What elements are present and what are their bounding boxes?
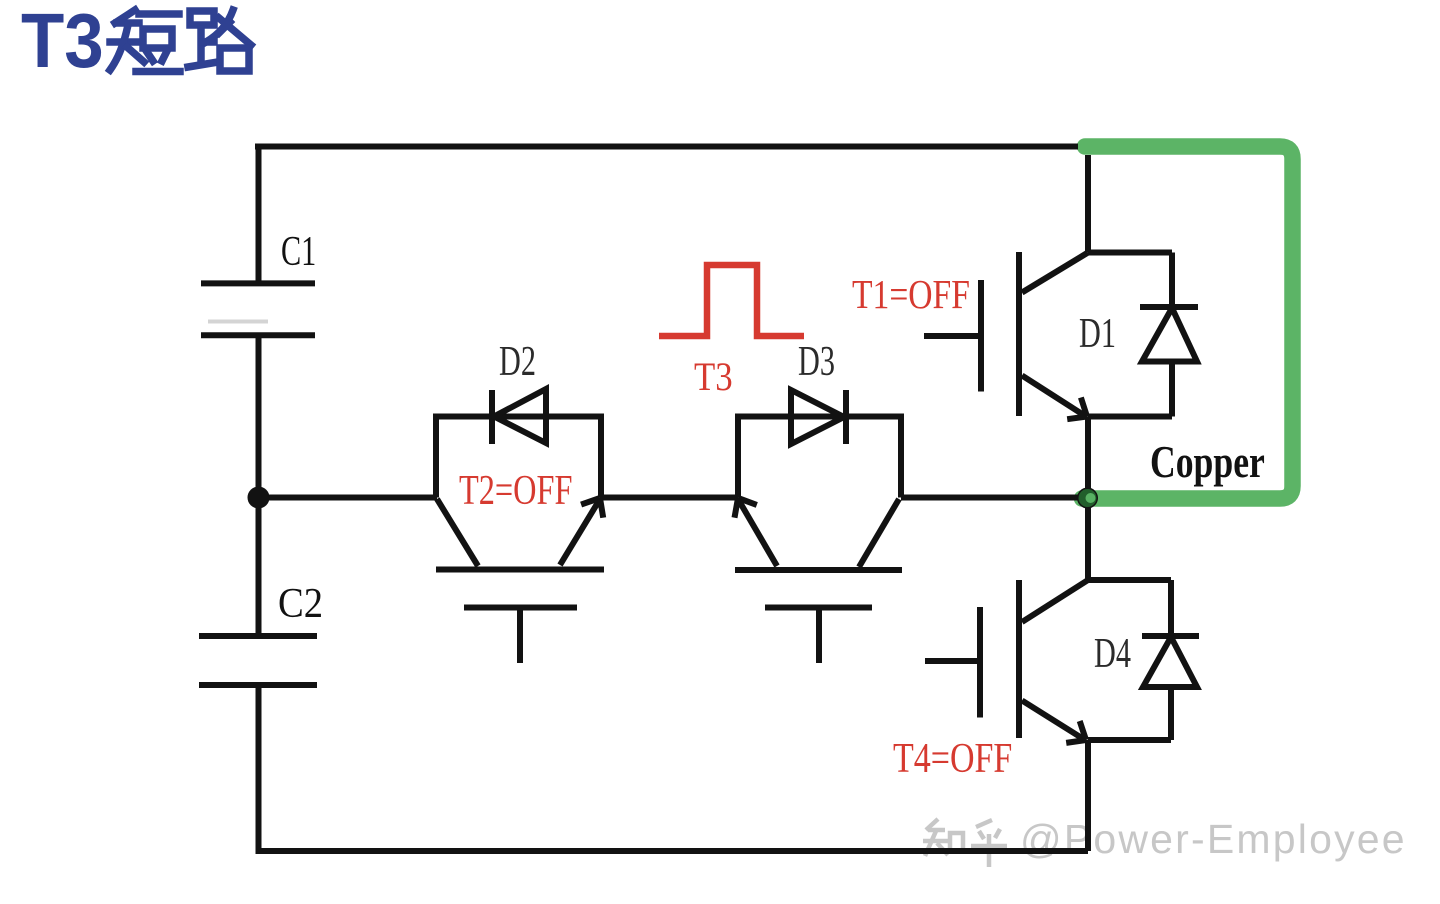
transistor T1 (IGBT) — [924, 155, 1172, 498]
svg-text:T2=OFF: T2=OFF — [459, 468, 572, 514]
svg-text:D2: D2 — [499, 337, 536, 384]
capacitor C2 — [199, 636, 317, 685]
diode D2 — [492, 389, 546, 444]
svg-text:@Power-Employee: @Power-Employee — [1020, 816, 1407, 862]
node midpoint junction — [248, 487, 270, 509]
wire left bus (lower) — [256, 688, 262, 851]
wire ghost artifact above C1 lower plate — [208, 320, 268, 324]
svg-text:D1: D1 — [1079, 309, 1116, 356]
短 — [115, 10, 135, 23]
capacitor C1 — [201, 283, 315, 335]
svg-text:T3: T3 — [694, 356, 733, 400]
diode D3 — [791, 390, 846, 444]
title text T3短路 — [21, 0, 251, 84]
svg-text:T3: T3 — [21, 0, 104, 84]
svg-text:T4=OFF: T4=OFF — [893, 736, 1012, 782]
svg-text:Copper: Copper — [1150, 436, 1265, 487]
路 — [190, 11, 214, 25]
svg-text:C2: C2 — [278, 580, 323, 627]
transistor T3 (IGBT) — [735, 417, 903, 664]
wire top bus — [255, 144, 1078, 150]
svg-text:C1: C1 — [281, 227, 316, 274]
wire mid rail center — [600, 495, 738, 501]
svg-text:D4: D4 — [1094, 629, 1131, 676]
diode D1 — [1088, 253, 1198, 417]
transistor T4 (IGBT) — [925, 498, 1171, 852]
wire mid rail right — [901, 495, 1085, 501]
node output junction (green) — [1077, 488, 1098, 509]
diode D4 — [1088, 580, 1199, 740]
wire mid rail left — [269, 495, 437, 501]
transistor T2 (IGBT) — [436, 417, 604, 664]
T3 gate pulse waveform — [659, 265, 804, 336]
watermark 知乎 @Power-Employee — [923, 816, 1407, 867]
svg-text:D3: D3 — [798, 337, 835, 384]
svg-text:T1=OFF: T1=OFF — [852, 273, 970, 318]
wire left bus (middle) — [256, 338, 262, 633]
wire left bus (upper) — [256, 144, 262, 282]
green copper short-circuit wire — [1082, 147, 1293, 499]
wire bottom bus — [256, 848, 1089, 854]
